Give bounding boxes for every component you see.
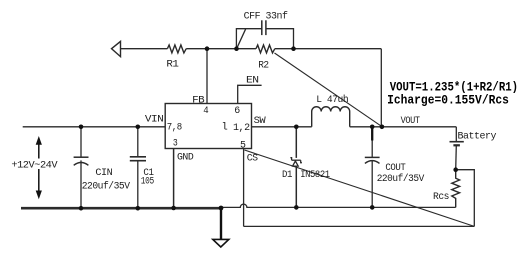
svg-text:D1: D1 <box>282 169 292 181</box>
ground stem <box>220 207 222 239</box>
wire feedback vertical to VOUT node <box>380 49 382 127</box>
wire top horizontal from arrow to R1 <box>121 48 168 50</box>
node D1 bottom <box>294 205 299 210</box>
svg-text:VIN: VIN <box>145 114 164 126</box>
svg-text:4: 4 <box>203 105 208 117</box>
battery lead top <box>455 127 457 142</box>
wire bottom return <box>244 225 475 227</box>
svg-text:6: 6 <box>234 105 240 117</box>
svg-text:EN: EN <box>246 75 259 87</box>
node C1 bottom <box>136 206 141 211</box>
wire CS sense drop <box>243 149 245 227</box>
capacitor COUT <box>371 127 373 158</box>
battery lead bottom <box>455 145 458 169</box>
capacitor C1 <box>137 127 139 157</box>
wire R2 to feedback corner <box>275 48 382 50</box>
svg-text:Rcs: Rcs <box>433 191 449 203</box>
wire SW rail to inductor <box>252 126 312 128</box>
svg-text:CIN: CIN <box>95 167 112 179</box>
EN stub <box>238 85 262 103</box>
svg-text:R2: R2 <box>258 59 269 71</box>
svg-text:VOUT: VOUT <box>401 115 420 127</box>
node FB junction <box>205 46 210 51</box>
svg-text:220uf/35V: 220uf/35V <box>377 173 425 185</box>
wire inductor to battery <box>350 126 457 128</box>
svg-text:105: 105 <box>141 176 154 188</box>
wire battery node to right drop <box>456 170 475 227</box>
node COUT top <box>370 125 375 130</box>
svg-text:IN5821: IN5821 <box>300 169 330 181</box>
wire ground rail thin with hop <box>222 204 456 207</box>
node battery Rcs <box>453 167 458 172</box>
arrow left-pointing open <box>112 41 121 56</box>
stray diagonal near CFF <box>237 29 246 49</box>
svg-text:R1: R1 <box>166 59 178 71</box>
resistor Rcs <box>452 170 460 208</box>
svg-text:7,8: 7,8 <box>167 122 182 134</box>
stray diagonal R2 to VOUT <box>275 53 382 127</box>
node GND pin bottom <box>171 206 176 211</box>
wire R1 to R2 <box>186 48 256 50</box>
capacitor CFF plates <box>261 20 263 35</box>
svg-text:3: 3 <box>173 138 178 150</box>
svg-text:L 47uh: L 47uh <box>316 94 348 106</box>
resistor R1 <box>167 45 186 53</box>
wire FB pin vertical <box>206 49 208 104</box>
svg-text:GND: GND <box>177 151 193 163</box>
op-amp U1 regulator box <box>165 104 251 149</box>
node CIN bottom <box>79 206 84 211</box>
node ground junction <box>219 206 224 211</box>
input range arrow <box>38 144 40 192</box>
ground symbol <box>213 239 229 247</box>
svg-text:l: l <box>222 121 228 133</box>
wire D1 to ground rail <box>295 166 297 207</box>
resistor R2 <box>256 45 275 53</box>
svg-text:CFF 33nf: CFF 33nf <box>244 11 288 23</box>
svg-text:+12V~24V: +12V~24V <box>11 160 58 172</box>
node COUT bottom <box>370 205 375 210</box>
svg-text:Battery: Battery <box>458 130 497 142</box>
capacitor CIN <box>80 127 82 157</box>
svg-text:CS: CS <box>247 153 258 165</box>
wire ground rail thick <box>21 207 222 210</box>
node VOUT <box>380 125 385 130</box>
capacitor CFF loop right <box>266 29 294 49</box>
white gap for +12V label <box>10 159 60 170</box>
wire GND pin <box>173 149 175 208</box>
inductor L 47uh <box>312 107 350 127</box>
svg-text:220uf/35V: 220uf/35V <box>82 180 131 192</box>
capacitor CFF loop left <box>236 29 261 49</box>
node C1 top <box>136 125 141 130</box>
node SW D1 <box>294 125 299 130</box>
svg-text:Icharge=0.155V/Rcs: Icharge=0.155V/Rcs <box>387 92 509 107</box>
wire SW node to D1 <box>295 127 297 158</box>
wire VIN rail <box>23 126 166 128</box>
diode D1 schottky <box>290 158 302 166</box>
svg-text:SW: SW <box>254 115 267 127</box>
svg-text:5: 5 <box>240 140 246 152</box>
battery plates <box>450 141 464 143</box>
node R2 left <box>234 46 239 51</box>
stray diagonal CS to bottom right corner <box>245 150 475 226</box>
node R2 right <box>291 46 296 51</box>
svg-text:1,2: 1,2 <box>233 122 250 134</box>
node CIN top <box>79 125 84 130</box>
